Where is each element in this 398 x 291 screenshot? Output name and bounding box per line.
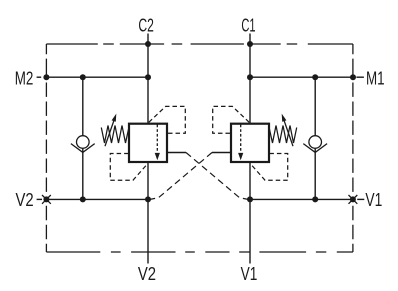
svg-text:M2: M2 xyxy=(15,68,34,89)
svg-text:V2: V2 xyxy=(138,263,156,284)
svg-text:V1: V1 xyxy=(241,263,258,284)
svg-text:V2: V2 xyxy=(16,189,34,210)
svg-text:V1: V1 xyxy=(365,189,382,210)
svg-text:C1: C1 xyxy=(241,14,255,35)
svg-text:C2: C2 xyxy=(138,14,154,35)
svg-text:M1: M1 xyxy=(366,68,385,89)
